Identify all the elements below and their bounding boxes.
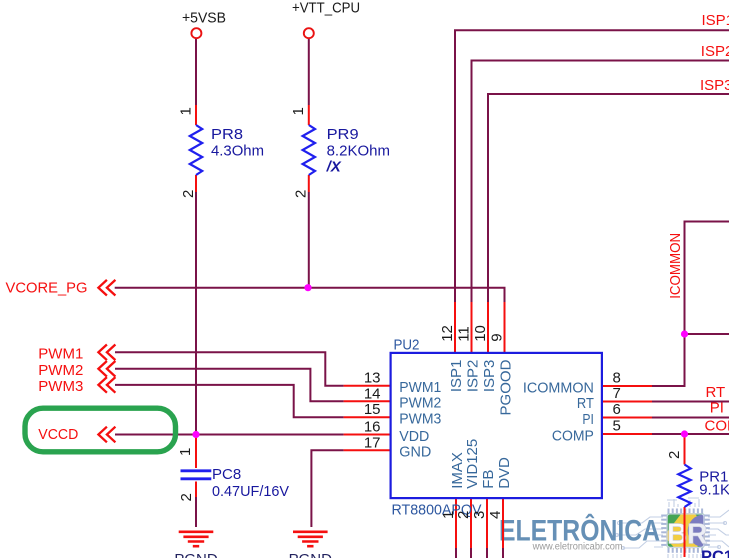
svg-text:9.1K: 9.1K: [699, 482, 729, 499]
svg-text:PWM3: PWM3: [399, 411, 441, 428]
svg-text:0.47UF/16V: 0.47UF/16V: [212, 483, 289, 500]
svg-text:PGND: PGND: [174, 551, 218, 558]
svg-text:PWM1: PWM1: [399, 379, 441, 396]
svg-text:ICOMMON: ICOMMON: [523, 379, 594, 396]
svg-text:+5VSB: +5VSB: [182, 9, 226, 26]
svg-text:VID125: VID125: [464, 439, 481, 489]
svg-text:PC16: PC16: [701, 548, 729, 558]
svg-text:www.eletronicabr.com: www.eletronicabr.com: [532, 542, 623, 553]
svg-text:8: 8: [613, 370, 621, 387]
svg-text:1: 1: [290, 107, 307, 115]
svg-text:17: 17: [364, 434, 381, 451]
svg-text:9: 9: [489, 333, 506, 341]
svg-text:6: 6: [613, 401, 621, 418]
svg-text:GND: GND: [399, 444, 431, 461]
svg-text:FB: FB: [480, 470, 497, 489]
svg-text:RT: RT: [577, 395, 594, 412]
svg-text:PWM2: PWM2: [38, 362, 83, 379]
svg-text:2: 2: [455, 511, 472, 519]
svg-text:15: 15: [364, 401, 381, 418]
svg-text:PWM2: PWM2: [399, 395, 441, 412]
svg-text:ISP2: ISP2: [465, 360, 482, 393]
svg-text:VDD: VDD: [399, 428, 429, 445]
svg-text:ISP1: ISP1: [448, 360, 465, 393]
svg-text:+VTT_CPU: +VTT_CPU: [292, 0, 360, 16]
svg-text:2: 2: [666, 451, 683, 459]
svg-text:8.2KOhm: 8.2KOhm: [327, 142, 390, 159]
svg-text:PGND: PGND: [289, 551, 333, 558]
svg-text:PI: PI: [582, 411, 594, 428]
svg-text:12: 12: [439, 325, 456, 342]
svg-text:PGOOD: PGOOD: [498, 359, 515, 415]
svg-text:11: 11: [456, 326, 473, 342]
svg-text:3: 3: [471, 511, 488, 519]
svg-text:PU2: PU2: [394, 337, 420, 354]
svg-text:PR8: PR8: [211, 126, 243, 143]
svg-text:2: 2: [180, 190, 197, 198]
svg-text:13: 13: [364, 370, 381, 387]
svg-text:PWM3: PWM3: [38, 378, 83, 395]
svg-text:2: 2: [178, 493, 195, 501]
svg-text:5: 5: [613, 418, 621, 435]
svg-text:14: 14: [364, 385, 381, 402]
svg-text:ISP3: ISP3: [481, 360, 498, 393]
svg-text:DVD: DVD: [496, 457, 513, 489]
svg-text:1: 1: [177, 448, 194, 456]
svg-text:PI: PI: [710, 399, 724, 416]
svg-text:PWM1: PWM1: [38, 346, 83, 363]
svg-text:4: 4: [487, 511, 504, 519]
svg-text:COMP: COMP: [705, 418, 729, 435]
svg-text:R: R: [687, 518, 708, 550]
svg-text:ISP2: ISP2: [701, 43, 729, 60]
svg-text:/X: /X: [326, 159, 342, 176]
svg-text:2: 2: [293, 190, 310, 198]
svg-text:ICOMMON: ICOMMON: [667, 233, 684, 299]
svg-text:10: 10: [472, 325, 489, 342]
svg-text:ISP1: ISP1: [702, 12, 729, 29]
svg-text:PC8: PC8: [212, 466, 241, 483]
svg-text:COMP: COMP: [552, 427, 594, 444]
svg-text:7: 7: [613, 385, 621, 402]
svg-text:VCCD: VCCD: [38, 426, 78, 443]
svg-text:1: 1: [178, 107, 195, 115]
svg-text:VCORE_PG: VCORE_PG: [6, 280, 88, 297]
svg-text:ISP3: ISP3: [700, 77, 729, 94]
svg-text:4.3Ohm: 4.3Ohm: [211, 142, 264, 159]
svg-text:PR9: PR9: [327, 126, 359, 143]
svg-text:16: 16: [364, 419, 381, 436]
